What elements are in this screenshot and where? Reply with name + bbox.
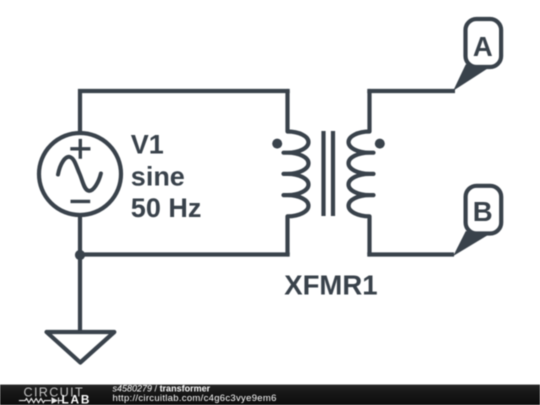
wire from V1 top to primary top bbox=[80, 91, 290, 133]
logo resistor and diode line bbox=[19, 398, 63, 404]
node A flag pointer bbox=[453, 64, 488, 91]
svg-text:XFMR1: XFMR1 bbox=[284, 270, 377, 301]
wire junction dot at ground node bbox=[75, 250, 85, 260]
transformer XFMR1 primary winding bbox=[284, 91, 309, 255]
wire ground lead bbox=[78, 255, 82, 332]
transformer core bars bbox=[324, 131, 334, 216]
footer bar bbox=[0, 385, 540, 405]
wire bottom-right to node B bbox=[367, 252, 454, 256]
XFMR1 secondary polarity dot bbox=[375, 139, 385, 149]
svg-text:s4580279 / transformer: s4580279 / transformer bbox=[113, 383, 211, 393]
svg-text:B: B bbox=[473, 196, 493, 227]
sine wave inside V1 bbox=[58, 157, 101, 191]
plus sign of V1 bbox=[70, 139, 90, 159]
svg-text:sine: sine bbox=[131, 161, 185, 191]
svg-text:http://circuitlab.com/c4g6c3vy: http://circuitlab.com/c4g6c3vye9em6 bbox=[113, 393, 277, 404]
node A box bbox=[466, 19, 502, 67]
svg-text:A: A bbox=[473, 31, 493, 62]
ground bbox=[47, 332, 115, 363]
svg-text:V1: V1 bbox=[131, 130, 164, 160]
wire from V1 bottom to primary bottom bbox=[80, 215, 290, 255]
node B box bbox=[466, 186, 502, 234]
svg-text:50 Hz: 50 Hz bbox=[131, 193, 202, 223]
node B flag pointer bbox=[453, 231, 488, 256]
XFMR1 primary polarity dot bbox=[272, 139, 282, 149]
transformer XFMR1 secondary winding bbox=[349, 91, 374, 255]
logo diode triangle bbox=[52, 397, 59, 404]
svg-text:LAB: LAB bbox=[62, 393, 92, 405]
wire top-right to node A bbox=[367, 89, 455, 93]
minus sign of V1 bbox=[71, 200, 91, 203]
voltage source V1 body circle bbox=[39, 133, 121, 215]
